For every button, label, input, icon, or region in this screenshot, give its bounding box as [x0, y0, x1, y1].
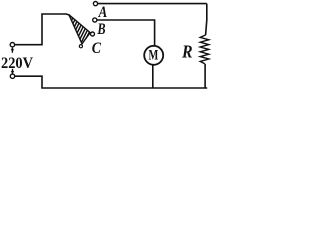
arrow at bottom terminal	[11, 69, 14, 75]
wire from top terminal to switch	[15, 14, 67, 45]
terminal top (supply)	[10, 43, 14, 47]
motor M	[144, 46, 163, 65]
blade handle knob	[79, 45, 82, 48]
arrow at top terminal	[11, 47, 14, 53]
bottom wire	[15, 76, 208, 88]
svg-text:220V: 220V	[1, 55, 33, 72]
contact A	[93, 2, 97, 6]
switch blade (hatched triangular handle)	[65, 14, 94, 50]
terminal bottom (supply)	[10, 74, 14, 78]
right branch wire (bottom)	[204, 64, 206, 88]
wire stub into blade apex	[66, 14, 69, 15]
wire motor to bottom	[152, 65, 154, 88]
right branch wire (top)	[206, 4, 207, 35]
svg-text:A: A	[98, 4, 108, 21]
svg-text:C: C	[92, 40, 101, 57]
svg-text:R: R	[181, 41, 193, 61]
svg-text:B: B	[97, 21, 106, 38]
contact B	[93, 18, 97, 22]
wire A to right branch	[98, 3, 207, 5]
contact C circle	[91, 32, 95, 36]
wire B to motor	[97, 20, 155, 46]
resistor R zigzag	[200, 35, 209, 64]
svg-text:M: M	[149, 48, 159, 64]
